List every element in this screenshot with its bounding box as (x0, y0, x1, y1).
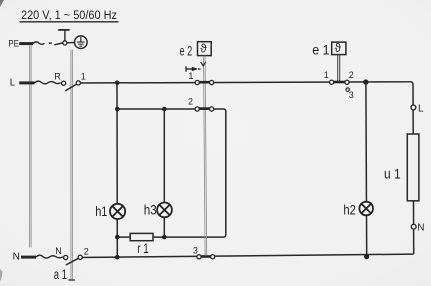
svg-text:e 2: e 2 (180, 42, 193, 58)
switch a1 L pole blade (65, 84, 77, 91)
switch e2 contact 2 left circle (195, 107, 199, 111)
PE plug terminal stem (64, 30, 66, 40)
switch a1 N pole right contact (78, 255, 82, 259)
wire N feed (thick lead + flexible squiggle) (21, 256, 36, 259)
svg-text:1: 1 (324, 70, 329, 80)
svg-text:N: N (55, 246, 62, 256)
switch e1 contact 1 circle (330, 80, 334, 84)
switch e2 actuator rod (204, 56, 207, 255)
switch e1 contact 2 circle (345, 80, 349, 84)
heater u1 terminal L circle (411, 105, 416, 110)
linkage a1 bottom tick (69, 279, 76, 281)
PE plug terminal T-bar (58, 29, 69, 31)
svg-text:h1: h1 (95, 203, 107, 219)
svg-text:r 1: r 1 (137, 240, 149, 256)
scan artifact: bottom-left edge mark (0, 269, 3, 281)
wire L bus (76, 82, 414, 254)
switch e2 contact 1 left circle (195, 80, 199, 84)
svg-text:3: 3 (349, 90, 354, 100)
junction dot r1-row/h1 (115, 235, 120, 240)
junction dot row2/h3 (162, 107, 167, 112)
lamp h3 (157, 203, 172, 218)
wire second row + corner + r1 row (117, 109, 226, 237)
wire branch h3 (vertical) (163, 109, 165, 237)
switch e2 actuator arrowhead (on rod) (201, 62, 206, 66)
junction dot row2/h1 (115, 107, 120, 112)
junction dot r1-row/h3 (162, 235, 167, 240)
switch a1 L pole left contact (62, 81, 66, 85)
switch e2 contact 2 bridge (199, 107, 210, 110)
lamp h2 (359, 202, 373, 216)
mechanical linkage (right, switch a1) (71, 50, 73, 280)
switch a1 N pole blade (66, 258, 80, 265)
svg-text:2: 2 (349, 70, 354, 80)
mechanical linkage (left, PE pole) (30, 46, 32, 248)
switch a1 L pole right contact (76, 81, 80, 85)
supply label underline (20, 21, 119, 23)
svg-text:1: 1 (188, 71, 193, 81)
svg-text:2: 2 (84, 247, 89, 257)
switch a1 N pole left contact (64, 255, 68, 259)
wire PE contact to earth symbol (67, 42, 75, 44)
switch e1 bridge (333, 81, 345, 84)
wire branch h1 (vertical) (116, 83, 118, 257)
junction dot N/h1 (115, 255, 120, 260)
earth symbol (protective earth in circle) (75, 36, 88, 49)
switch e2 contact 3 right circle (211, 255, 215, 259)
scan artifact: top-left corner mark (0, 0, 4, 7)
switch e1 contact 3 circle (346, 88, 349, 91)
switch e2 contact 1 right circle (210, 80, 214, 84)
heater u1 terminal N circle (411, 224, 416, 229)
svg-text:e 1: e 1 (312, 42, 330, 58)
svg-text:N: N (417, 223, 424, 234)
svg-text:u 1: u 1 (384, 166, 401, 182)
wire branch h2 (vertical) (365, 82, 368, 256)
resistor r1 (130, 233, 153, 240)
heater u1 body (407, 134, 419, 201)
svg-text:3: 3 (193, 245, 198, 255)
svg-text:1: 1 (81, 72, 86, 82)
wire PE feed (thick lead + flexible squiggle + dash) (19, 42, 33, 45)
svg-text:a 1: a 1 (54, 266, 67, 282)
svg-text:N: N (13, 252, 20, 263)
switch e2 contact 3 left circle (197, 255, 201, 259)
switch e2 contact 2 right circle (210, 107, 214, 111)
wire N bus (78, 254, 414, 257)
wire L feed (thick lead + flexible squiggle) (19, 81, 34, 84)
svg-text:L: L (418, 103, 424, 114)
svg-text:220 V, 1 ~ 50/60 Hz: 220 V, 1 ~ 50/60 Hz (21, 10, 117, 22)
svg-text:ϑ: ϑ (335, 43, 342, 55)
switch e2 contact 1 bridge (199, 81, 210, 84)
switch a1 PE contact circle (63, 41, 67, 45)
switch e1 actuator rod (338, 55, 340, 82)
lamp h1 (110, 204, 125, 219)
svg-text:2: 2 (188, 97, 193, 107)
junction dot L/h2 (363, 79, 368, 84)
junction dot L/h1 (115, 81, 120, 86)
switch e2 actuation arrow (pointer) (185, 66, 187, 71)
switch e2 contact 3 bridge (201, 255, 211, 258)
svg-text:L: L (10, 78, 16, 89)
svg-text:PE: PE (8, 38, 18, 48)
svg-text:R: R (54, 71, 61, 81)
switch a1 PE contact blade (54, 43, 63, 45)
svg-text:h3: h3 (144, 202, 157, 218)
switch e1 box (332, 42, 346, 55)
svg-text:ϑ: ϑ (200, 44, 207, 56)
switch e2 box (198, 42, 212, 56)
junction dot N/h2 (364, 254, 369, 259)
svg-text:h2: h2 (343, 201, 356, 217)
